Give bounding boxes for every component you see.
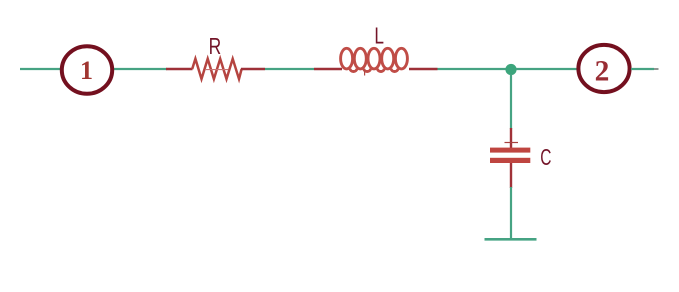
wire right lead from node 2 [631,68,654,70]
capacitor C plates [490,148,530,163]
wire capacitor top lead (dark red) [510,128,512,148]
svg-text:R: R [209,33,222,59]
inductor L (5 loops) [341,48,408,71]
stray tick below inductor [364,70,366,76]
junction node dot [505,64,516,75]
wire inductor to junction (teal) [438,68,507,70]
wire left lead into node 1 [20,68,61,70]
wire inductor left lead (dark red) [314,68,342,70]
svg-text:1: 1 [80,56,93,85]
node 1 circle [62,46,112,94]
svg-text:C: C [540,144,551,170]
capacitor crosshair tick [505,142,519,144]
resistor R [192,59,241,79]
svg-text:2: 2 [595,55,610,87]
wire capacitor bottom lead (dark red) [510,163,512,188]
wire node 1 to resistor (teal part) [113,68,167,70]
node 2 circle [578,45,629,92]
wire inductor right lead (dark red) [409,68,438,70]
wire capacitor to ground (teal) [510,187,512,239]
svg-text:L: L [374,22,384,48]
wire resistor to inductor (teal part) [265,68,314,70]
wire resistor left lead (dark red) [166,68,193,70]
wire junction to node 2 (teal) [516,68,578,70]
wire gray tip at right end [654,68,659,70]
wire resistor right lead (dark red) [241,68,265,70]
ground [485,238,537,241]
wire junction down to capacitor (teal) [510,74,512,129]
